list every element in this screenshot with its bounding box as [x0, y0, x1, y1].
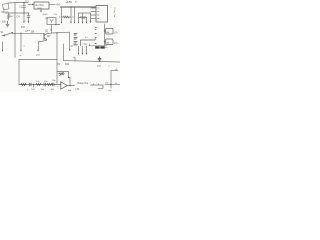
- svg-text:out: out: [68, 89, 71, 92]
- op-amp U3: [61, 82, 68, 89]
- wire collector: [48, 32, 52, 34]
- node C: [20, 33, 21, 34]
- wire arrow: [82, 46, 84, 53]
- wire corner: [56, 59, 59, 61]
- IC U1: [96, 6, 108, 23]
- wire arrow: [70, 22, 72, 24]
- wire: [14, 3, 16, 58]
- wire arrow down below regulator: [40, 9, 42, 11]
- wire arrow: [78, 46, 80, 53]
- wire: [8, 2, 15, 4]
- pin label column: [74, 34, 77, 45]
- dark label bar: [95, 46, 99, 48]
- label cap =: [98, 57, 101, 62]
- wire: [89, 45, 107, 47]
- capacitor C2: [27, 13, 30, 19]
- wire arrow down: [20, 33, 22, 49]
- svg-text:C5+: C5+: [54, 14, 59, 16]
- wire: [74, 7, 76, 22]
- big loop wire left: [18, 60, 20, 85]
- pin number marks: [95, 28, 96, 44]
- stub: [33, 85, 35, 88]
- wire: [61, 7, 63, 22]
- wire: [86, 18, 88, 22]
- feedback resistor R10: [59, 73, 65, 75]
- capacitor C6: [44, 83, 46, 86]
- wire: [104, 24, 106, 46]
- node G: [47, 84, 48, 85]
- wire cross: [105, 83, 120, 85]
- component box X1: [47, 18, 56, 25]
- bottom rail: [19, 84, 61, 86]
- wire arrow: [78, 22, 80, 24]
- stub: [105, 31, 106, 42]
- node D: [56, 32, 57, 33]
- capacitor C7: [53, 83, 55, 86]
- svg-text:+5V: +5V: [56, 3, 61, 6]
- wire arrow: [82, 22, 84, 24]
- wire: [15, 2, 28, 4]
- svg-text:GND: GND: [43, 14, 48, 16]
- regulator U2: [34, 2, 49, 9]
- ground: [6, 21, 9, 27]
- wire: [51, 25, 53, 34]
- resistor R4: [79, 17, 87, 19]
- wire output: [68, 85, 75, 87]
- svg-text:4v5: 4v5: [21, 26, 26, 29]
- svg-text:+4.5V: +4.5V: [66, 1, 73, 4]
- node A: [23, 2, 24, 3]
- pin stub 1: [91, 7, 96, 9]
- wire: [90, 13, 92, 21]
- wire: [15, 12, 29, 14]
- wire to right: [52, 31, 70, 34]
- relay contact box K1b: [106, 39, 114, 45]
- wire arrow: [90, 21, 92, 23]
- resistor R7: [21, 84, 26, 86]
- node F: [33, 84, 34, 85]
- wire arrow: [86, 46, 88, 53]
- wire arrow: [74, 22, 76, 24]
- transistor Q1: [43, 34, 45, 40]
- wire: [70, 7, 72, 22]
- wire: [5, 12, 15, 14]
- relay contact box K1a: [106, 29, 114, 35]
- wire long mid: [64, 61, 121, 63]
- svg-text:Relay Out: Relay Out: [113, 8, 116, 18]
- resistor R3: [62, 16, 71, 18]
- svg-text:Relay Out: Relay Out: [78, 82, 89, 85]
- feedback loop: [57, 72, 69, 84]
- wire base: [13, 32, 44, 34]
- node H: [69, 85, 70, 86]
- switch S1: [2, 33, 12, 36]
- node B: [23, 12, 24, 13]
- capacitor C5: [30, 83, 32, 86]
- svg-text:Vin Vout: Vin Vout: [35, 4, 44, 7]
- node rail-switch: [14, 33, 15, 34]
- wire: [74, 58, 76, 62]
- svg-text:aw: aw: [106, 42, 109, 44]
- node E: [104, 30, 105, 31]
- wire arrow: [86, 22, 88, 24]
- capacitor C1: [23, 3, 26, 13]
- resistor R8: [36, 84, 41, 86]
- svg-text:7805: 7805: [37, 8, 43, 10]
- node I: [110, 84, 111, 85]
- node rail: [70, 6, 72, 8]
- resistor R9: [47, 84, 52, 86]
- big loop wire top: [19, 59, 57, 61]
- wire arrow: [61, 22, 63, 24]
- +4.5V rail: [61, 6, 97, 8]
- wire arrow far left: [2, 42, 4, 50]
- svg-text:aw: aw: [106, 32, 109, 34]
- wire: [82, 13, 84, 22]
- wire arrow into regulator: [28, 3, 33, 5]
- microphone MIC1: [3, 3, 10, 10]
- wire right v: [111, 70, 118, 88]
- wire arrow down left: [23, 13, 25, 21]
- resistor R1: [7, 13, 9, 20]
- wire regulator output: [49, 3, 55, 5]
- component box X2: [81, 40, 96, 46]
- wire: [63, 44, 65, 61]
- wire: [79, 12, 91, 14]
- wire arrow: [69, 32, 71, 49]
- pin stub 3: [91, 14, 96, 16]
- wire arrow down right: [28, 19, 30, 21]
- pin stub 2: [91, 11, 96, 13]
- svg-text:MIC in: MIC in: [2, 11, 10, 14]
- pin marks inside IC: [98, 8, 100, 19]
- wire right gnd: [91, 85, 104, 88]
- wire down: [56, 33, 58, 72]
- pin stub 4: [91, 18, 96, 20]
- wire feedback down: [69, 77, 71, 85]
- wire emitter down arrow: [37, 42, 39, 50]
- wire: [78, 13, 80, 22]
